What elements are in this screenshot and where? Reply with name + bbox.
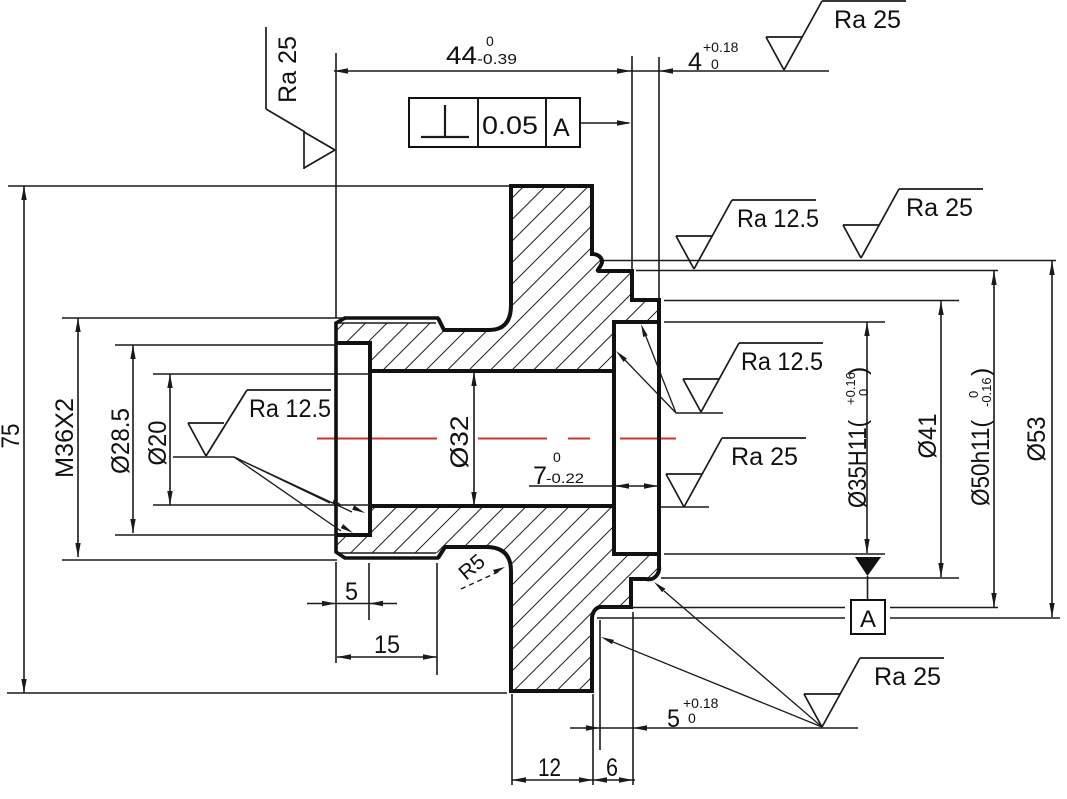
dimension 75 (overall height, left) bbox=[0, 186, 509, 693]
svg-text:0: 0 bbox=[553, 449, 561, 465]
svg-text:Ø20: Ø20 bbox=[144, 421, 172, 466]
surface finish Ra 12.5 (on Ø50 extension) bbox=[676, 200, 819, 269]
svg-text:5: 5 bbox=[667, 705, 680, 733]
svg-text:): ) bbox=[844, 367, 872, 375]
svg-text:Ra 25: Ra 25 bbox=[874, 663, 941, 691]
landing line (bore bottom edge extension) under Ra 25 mid bbox=[661, 506, 709, 508]
part outline: thread crest top (M36X2) bbox=[344, 316, 439, 320]
centerline of bore (red) bbox=[317, 438, 676, 440]
dimension 7 -0.22/0 (counterbore depth) bbox=[529, 449, 658, 490]
svg-text:Ø32: Ø32 bbox=[446, 416, 474, 469]
svg-text:Ø50h11(: Ø50h11( bbox=[967, 419, 995, 506]
svg-text:-0.16: -0.16 bbox=[979, 377, 994, 407]
dimension 15 (thread length) bbox=[337, 563, 437, 675]
svg-text:+0.18: +0.18 bbox=[703, 39, 739, 55]
svg-text:): ) bbox=[967, 368, 995, 376]
hatched section (lower half of part) bbox=[336, 506, 659, 691]
svg-text:Ø35H11(: Ø35H11( bbox=[844, 419, 872, 508]
feature control frame: perpendicularity 0.05 to datum A bbox=[409, 98, 631, 147]
svg-text:Ra 12.5: Ra 12.5 bbox=[249, 395, 331, 423]
surface finish Ra 25 (top right, on groove dim line) bbox=[766, 1, 906, 70]
svg-text:+0.18: +0.18 bbox=[683, 695, 719, 711]
svg-text:6: 6 bbox=[606, 754, 618, 782]
radius label R5 with dashed leader bbox=[454, 550, 505, 589]
dimension 5 (counterbore depth, lower left) bbox=[307, 562, 397, 663]
svg-text:-0.22: -0.22 bbox=[546, 470, 584, 486]
svg-text:44: 44 bbox=[446, 42, 477, 70]
svg-text:Ø41: Ø41 bbox=[914, 414, 942, 459]
dimensions 12 and 6 (flange and hub widths, bottom) bbox=[512, 612, 635, 785]
svg-text:Ra 25: Ra 25 bbox=[731, 443, 798, 471]
dimension Ø53 (flange) bbox=[597, 261, 1060, 619]
part outline: thread crest bottom (M36X2) bbox=[344, 556, 439, 560]
part outline: outer profile (flange and hub) bbox=[438, 186, 659, 691]
svg-text:+0.16: +0.16 bbox=[843, 372, 858, 405]
svg-text:Ra 12.5: Ra 12.5 bbox=[737, 205, 819, 233]
dimension Ø32 (central bore) bbox=[446, 372, 477, 506]
leader arrows from Ra 12.5 left to counterbore surfaces bbox=[234, 457, 365, 533]
landing line under Ra 12.5 left bbox=[173, 456, 234, 458]
dimension 4 +0.18/0 (groove width, top) bbox=[688, 39, 739, 76]
svg-text:A: A bbox=[860, 606, 876, 633]
surface finish Ra 12.5 (right bore, with leaders) bbox=[683, 343, 823, 412]
svg-text:Ø28.5: Ø28.5 bbox=[107, 408, 135, 474]
svg-text:0: 0 bbox=[486, 33, 494, 49]
svg-text:Ra 25: Ra 25 bbox=[274, 36, 302, 103]
surface finish Ra 25 (bottom right, with leaders) bbox=[804, 658, 944, 727]
svg-text:0: 0 bbox=[856, 389, 871, 396]
svg-text:4: 4 bbox=[688, 48, 702, 76]
part outline: counterbore shoulder wall x=370 bbox=[368, 341, 372, 537]
dimension Ø20 (bore) bbox=[144, 374, 371, 505]
svg-text:Ra 12.5: Ra 12.5 bbox=[741, 348, 823, 376]
svg-text:M36X2: M36X2 bbox=[51, 398, 79, 478]
svg-text:75: 75 bbox=[0, 424, 25, 449]
hatched section (upper half of part) bbox=[336, 186, 659, 371]
thread root line top (thin) bbox=[338, 322, 436, 324]
svg-text:Ra 25: Ra 25 bbox=[906, 194, 973, 222]
dimension 44 -0.39/0 (sleeve length, top) bbox=[334, 33, 829, 318]
svg-text:A: A bbox=[553, 114, 570, 142]
svg-text:Ø53: Ø53 bbox=[1023, 417, 1051, 462]
part outline: bore lower profile bbox=[336, 506, 659, 554]
dimension M36X2 (thread) bbox=[51, 318, 344, 560]
surface finish Ra 12.5 (left bore, with leaders) bbox=[188, 390, 331, 456]
dimension Ø28.5 (counterbore) bbox=[107, 345, 337, 535]
dimension Ø41 bbox=[661, 301, 959, 579]
dimension 5 +0.18/0 (groove width, bottom) bbox=[570, 620, 858, 750]
dimension Ø35H11 +0.16/0 (right counterbore) bbox=[664, 322, 885, 554]
leader arrows from Ra 12.5 right to Ø35 bore surfaces bbox=[616, 324, 676, 413]
dimension Ø50h11 0/-0.16 (hub) bbox=[601, 271, 998, 608]
leader arrows from Ra 25 bottom right to groove surfaces bbox=[601, 582, 822, 727]
landing line under Ra 12.5 right bbox=[676, 412, 723, 414]
thread root line bottom (thin) bbox=[338, 552, 436, 554]
svg-text:5: 5 bbox=[345, 578, 358, 606]
surface finish Ra 25 (on Ø53 extension) bbox=[843, 189, 983, 258]
svg-text:Ra 25: Ra 25 bbox=[834, 6, 901, 34]
svg-text:12: 12 bbox=[538, 754, 561, 782]
svg-text:-0.39: -0.39 bbox=[477, 51, 517, 68]
datum feature symbol A bbox=[851, 557, 885, 634]
svg-text:7: 7 bbox=[533, 462, 547, 490]
svg-text:0: 0 bbox=[688, 710, 696, 726]
svg-text:15: 15 bbox=[374, 631, 400, 659]
surface finish Ra 25 (bore Ø32 surface) bbox=[666, 438, 806, 507]
surface finish Ra 25 (left face, rotated) bbox=[266, 27, 335, 169]
svg-text:0.05: 0.05 bbox=[482, 112, 538, 140]
svg-text:0: 0 bbox=[711, 56, 719, 72]
part outline: left face of threaded sleeve bbox=[336, 318, 345, 558]
part outline: bore shoulder wall x=614 bbox=[612, 320, 616, 556]
part outline: bore upper profile (counterbore Ø28.5 / bore Ø32 / counterbore Ø35H11) bbox=[336, 322, 659, 371]
